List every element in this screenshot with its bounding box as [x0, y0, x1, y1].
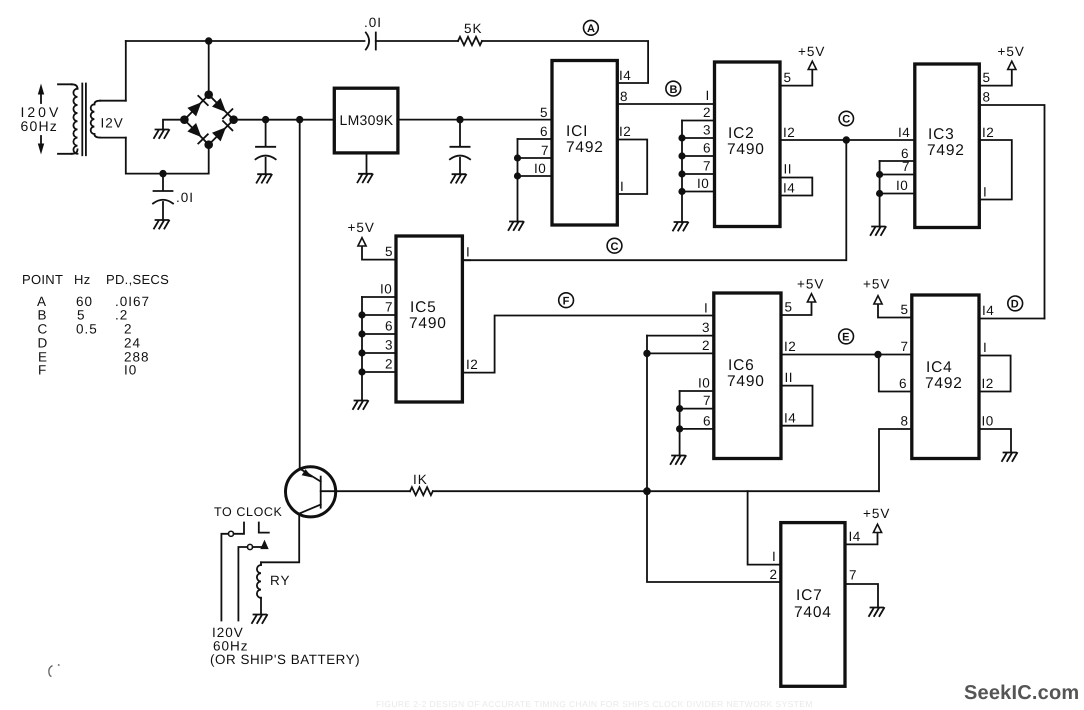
- IC3 7492 box: [915, 64, 980, 228]
- IC2 7490 box: [715, 62, 781, 227]
- wire: contact 1 down to 120V source: [221, 534, 228, 621]
- IC4 pin 10 wire to ground: [979, 429, 1011, 453]
- ground (IC6 bus): [671, 456, 686, 465]
- +5V supply (IC5): [358, 238, 366, 246]
- IC6 pin 11 to pin 14 loop: [781, 386, 813, 426]
- resistor 5K: [458, 21, 483, 45]
- IC6 7490 box: [714, 293, 781, 459]
- svg-text:3: 3: [385, 338, 393, 353]
- svg-text:5K: 5K: [464, 21, 483, 36]
- IC4 pin 5 wire to +5V: [878, 303, 912, 318]
- svg-text:I2: I2: [982, 125, 994, 140]
- IC7 pin 14 wire to +5V: [845, 531, 878, 544]
- wire: top rail (left of .01 cap): [126, 40, 365, 42]
- ground (IC3 bus): [871, 227, 886, 236]
- svg-text:5: 5: [901, 302, 909, 317]
- IC3 pin 7 wire: [880, 174, 915, 176]
- junction: output cap C3: [456, 116, 463, 123]
- svg-text:+5V: +5V: [863, 506, 890, 521]
- IC1 7492 box: [552, 61, 617, 226]
- IC4 7492 box: [912, 295, 979, 459]
- svg-text:I: I: [772, 549, 776, 564]
- ground (IC4 pin 10): [1002, 453, 1017, 462]
- ground (C3): [451, 174, 466, 183]
- svg-text:0.5: 0.5: [76, 322, 98, 337]
- IC4 pin 1 to pin 12 loop: [979, 356, 1011, 392]
- svg-text:24: 24: [124, 336, 141, 351]
- IC5 pin 7 wire: [362, 314, 396, 316]
- svg-text:(OR SHIP'S BATTERY): (OR SHIP'S BATTERY): [210, 652, 360, 667]
- svg-text:2: 2: [702, 338, 710, 353]
- wire: bridge top to rail: [208, 41, 210, 95]
- svg-text:Hz: Hz: [74, 272, 91, 287]
- svg-text:I0: I0: [982, 414, 994, 429]
- node A: [584, 20, 599, 35]
- svg-text:IK: IK: [413, 472, 428, 487]
- IC6 pin 2 wire: [647, 352, 714, 354]
- IC6 left bus to ground: [679, 391, 681, 456]
- junction: transistor collector feed: [296, 116, 303, 123]
- svg-text:I4: I4: [619, 68, 631, 83]
- IC6 pin 10 wire: [680, 390, 714, 392]
- svg-text:6: 6: [703, 141, 711, 156]
- transformer T1 primary winding: [58, 84, 78, 154]
- svg-text:B: B: [670, 84, 678, 96]
- wire: top rail (5K to IC1 pin 14), node A drop: [482, 41, 648, 83]
- IC5 pin 5 wire to +5V: [362, 245, 396, 260]
- svg-text:F: F: [38, 363, 47, 378]
- IC2 pin 7 wire: [682, 173, 715, 175]
- IC2 pin 6 wire: [682, 155, 715, 157]
- svg-text:6: 6: [899, 376, 907, 391]
- ground (C2): [257, 174, 272, 183]
- svg-text:7492: 7492: [927, 142, 965, 159]
- svg-text:5: 5: [983, 70, 991, 85]
- svg-text:IC4: IC4: [926, 359, 953, 376]
- svg-text:7: 7: [901, 339, 909, 354]
- svg-text:6: 6: [540, 124, 548, 139]
- junction: 1K line / IC6-IC7 vertical: [643, 487, 651, 495]
- wire: bridge right node to LM309K input: [234, 119, 334, 121]
- svg-text:I2: I2: [466, 357, 478, 372]
- wire: secondary top to top rail: [125, 41, 127, 101]
- voltage regulator U1 LM309K: [334, 88, 398, 153]
- wire: LM309K ground lead: [366, 153, 368, 174]
- IC1 pin 7 wire: [518, 157, 553, 159]
- diode D1 (left-top edge, points to top node): [187, 102, 201, 116]
- IC7 pin 7 wire to ground: [845, 584, 878, 608]
- clock contact 2 (open circle and armature arrow): [247, 540, 268, 550]
- IC1 left bus to ground: [517, 139, 519, 222]
- svg-text:7492: 7492: [925, 375, 963, 392]
- svg-text:PD.,SECS: PD.,SECS: [106, 272, 169, 287]
- svg-text:3: 3: [703, 123, 711, 138]
- svg-text:8: 8: [983, 90, 991, 105]
- svg-text:D: D: [1011, 299, 1019, 311]
- capacitor .01 (lower left): [153, 174, 194, 220]
- wire: top rail (cap to 5K): [376, 40, 458, 42]
- IC3 pin 10 wire: [880, 193, 915, 195]
- +5V supply (IC7): [873, 524, 881, 532]
- IC5 pin 3 wire: [362, 352, 396, 354]
- capacitor .01 on top rail: [364, 15, 382, 50]
- svg-text:I4: I4: [783, 181, 795, 196]
- svg-text:5: 5: [385, 244, 393, 259]
- Q1 collector lead out: [321, 490, 336, 492]
- label 120V 60Hz (OR SHIP'S BATTERY): [210, 625, 360, 667]
- IC5 pin 1 wire (to node C line): [462, 259, 470, 261]
- svg-text:7: 7: [385, 300, 393, 315]
- clock fixed contact L: [259, 523, 269, 533]
- IC6 pin 7 wire: [680, 408, 714, 410]
- IC2 pin 10 wire: [682, 191, 715, 193]
- IC6 pin 12 wire to IC4 pin 7 (node E): [781, 354, 912, 356]
- svg-text:5: 5: [785, 300, 793, 315]
- svg-text:6: 6: [703, 414, 711, 429]
- transformer T1 secondary winding 12V: [91, 101, 126, 138]
- ground (bridge left): [154, 130, 169, 139]
- bridge rectifier diamond: [180, 90, 238, 149]
- svg-text:LM309K: LM309K: [340, 112, 394, 128]
- node C (below IC1): [607, 238, 622, 253]
- svg-text:I: I: [466, 245, 470, 260]
- wire: contact 2 down to 120V source: [238, 547, 247, 621]
- svg-text:I: I: [706, 88, 710, 103]
- +5V supply (IC3): [1008, 61, 1016, 69]
- wire: secondary bottom to bridge bottom: [126, 138, 209, 174]
- node F: [559, 293, 574, 308]
- IC5 pin 2 wire: [362, 371, 396, 373]
- svg-text:7490: 7490: [409, 315, 447, 332]
- diode D2 (top-right edge, points to right node): [212, 98, 226, 112]
- svg-text:5: 5: [784, 70, 792, 85]
- svg-text:60Hz: 60Hz: [21, 118, 58, 134]
- timing table: [22, 272, 169, 378]
- wire: Q1 base lead to relay: [261, 514, 299, 563]
- capacitor C2 to ground: [256, 120, 276, 175]
- ground (LM309K): [358, 174, 373, 183]
- svg-text:I2: I2: [783, 125, 795, 140]
- IC1 pin 12 to pin 1 loop: [617, 140, 647, 195]
- IC2 left bus to ground: [681, 121, 683, 223]
- svg-text:I4: I4: [784, 411, 796, 426]
- junction: filter cap C2: [262, 116, 269, 123]
- svg-text:7: 7: [541, 143, 549, 158]
- resistor 1K: [410, 472, 433, 495]
- +5V supply (IC6): [807, 294, 815, 302]
- IC1 pin 8 wire to IC2 pin 1: [617, 103, 714, 105]
- relay coil RY: [257, 562, 291, 614]
- IC2 pin 2 wire: [682, 120, 715, 122]
- svg-text:ICI: ICI: [566, 123, 588, 140]
- junction: rail/bridge: [205, 37, 212, 44]
- node C (top): [839, 111, 853, 125]
- svg-text:SeekIC.com: SeekIC.com: [964, 682, 1079, 704]
- IC7 7404 box: [781, 523, 845, 687]
- wire: LM309K output to IC1 pin 5: [398, 119, 552, 121]
- IC2 pin 5 wire to +5V: [780, 68, 812, 86]
- label 120V 60Hz with double arrow: [21, 84, 124, 155]
- IC5 7490 box: [396, 236, 462, 402]
- svg-text:C: C: [38, 322, 49, 337]
- wire: node C down and left to IC5 pin 1: [462, 140, 846, 260]
- svg-text:7: 7: [849, 568, 857, 583]
- svg-text:+5V: +5V: [348, 220, 375, 235]
- svg-text:I0: I0: [697, 176, 709, 191]
- svg-text:I: I: [983, 340, 987, 355]
- wire: IC6 pins 3/2 down to IC7 pin 2: [647, 336, 781, 582]
- wire: 1K to corner at IC4 pin 8: [433, 490, 879, 492]
- capacitor C3 to ground: [450, 120, 470, 175]
- ground (relay): [252, 615, 267, 624]
- svg-text:8: 8: [620, 89, 628, 104]
- node B: [666, 81, 681, 96]
- node D: [1008, 296, 1023, 311]
- svg-text:B: B: [38, 308, 48, 323]
- svg-text:D: D: [38, 336, 49, 351]
- clock contact 1 (open circle and hook): [228, 523, 244, 537]
- svg-text:I4: I4: [982, 303, 994, 318]
- IC5 pin 12 wire to node F line: [462, 316, 713, 373]
- svg-text:.2: .2: [115, 308, 128, 323]
- IC2 pin 3 wire: [682, 137, 715, 139]
- transformer T1 core: [82, 84, 86, 156]
- svg-text:I0: I0: [698, 376, 710, 391]
- ground (IC5 bus): [353, 401, 368, 410]
- svg-text:+5V: +5V: [863, 277, 890, 292]
- svg-text:I2V: I2V: [101, 116, 124, 131]
- svg-text:7490: 7490: [727, 373, 765, 390]
- node E: [839, 329, 854, 344]
- svg-text:I2: I2: [784, 339, 796, 354]
- svg-text:7: 7: [902, 159, 910, 174]
- svg-text:C: C: [611, 241, 619, 253]
- wire: bridge left node to ground: [163, 120, 184, 130]
- Q1 emitter diagonal with arrow: [300, 469, 321, 482]
- svg-text:+5V: +5V: [797, 277, 824, 292]
- IC1 pin 10 wire: [518, 175, 553, 177]
- IC3 pin 5 wire to +5V: [979, 68, 1012, 86]
- svg-text:II: II: [785, 370, 794, 385]
- IC5 pin 6 wire: [362, 333, 396, 335]
- svg-text:5: 5: [77, 308, 86, 323]
- svg-text:I0: I0: [534, 161, 546, 176]
- svg-text:2: 2: [385, 357, 393, 372]
- svg-text:7490: 7490: [727, 141, 765, 158]
- IC3 pin 12 to pin 1 loop: [979, 140, 1012, 200]
- +5V supply (IC4): [874, 296, 882, 304]
- svg-text:RY: RY: [270, 573, 291, 588]
- svg-text:IC6: IC6: [728, 357, 755, 374]
- IC3 pin 8 wire to node D drop: [979, 105, 1044, 319]
- svg-text:2: 2: [124, 322, 133, 337]
- junction: node C drop: [843, 136, 850, 143]
- IC6 pin 3 wire: [647, 335, 714, 337]
- svg-text:I2: I2: [619, 124, 631, 139]
- svg-text:IC7: IC7: [796, 587, 823, 604]
- ground (IC1 bus): [509, 222, 524, 231]
- IC1 pin 6 wire: [518, 138, 553, 140]
- junction: IC6 pin 2: [643, 350, 650, 357]
- +5V supply (IC2): [808, 61, 816, 69]
- svg-text:.0I: .0I: [176, 190, 194, 205]
- svg-text:I: I: [983, 185, 987, 200]
- svg-text:+5V: +5V: [998, 44, 1025, 59]
- IC6 pin 5 wire to +5V: [781, 301, 812, 316]
- svg-text:I0: I0: [896, 178, 908, 193]
- svg-text:I: I: [620, 179, 624, 194]
- transistor Q1: [286, 467, 336, 517]
- svg-text:7: 7: [703, 393, 711, 408]
- svg-text:I0: I0: [380, 282, 392, 297]
- junction: IC4 pins 7/6: [874, 351, 881, 358]
- ground (IC7 pin 7): [869, 608, 884, 617]
- diode D4 (bottom-right edge, points to right node): [212, 127, 226, 141]
- wire: branch down to IC7 pin 1: [748, 491, 781, 564]
- stray mark left margin: [49, 665, 60, 677]
- svg-text:7: 7: [703, 159, 711, 174]
- svg-text:II: II: [784, 162, 793, 177]
- svg-text:A: A: [587, 23, 595, 35]
- svg-text:7404: 7404: [794, 604, 832, 621]
- diode D3 (left-bottom edge, points to bottom node): [187, 123, 201, 137]
- bridge node dots: [204, 90, 213, 99]
- Q1 base diagonal: [299, 505, 321, 514]
- IC4 pin 14 wire from node D drop: [979, 318, 1045, 320]
- svg-text:POINT: POINT: [22, 272, 63, 287]
- svg-text:IC2: IC2: [728, 125, 755, 142]
- svg-text:IC5: IC5: [410, 299, 437, 316]
- svg-text:6: 6: [385, 319, 393, 334]
- svg-text:I4: I4: [898, 125, 910, 140]
- ground (lower .01 cap): [154, 220, 169, 229]
- svg-text:I: I: [704, 301, 708, 316]
- IC2 pin 12 wire to node C: [780, 139, 915, 141]
- svg-text:I4: I4: [849, 529, 861, 544]
- junction: bottom wire / .01 cap: [159, 170, 166, 177]
- svg-text:5: 5: [540, 105, 548, 120]
- svg-text:3: 3: [702, 320, 710, 335]
- IC3 left bus to ground: [879, 161, 881, 227]
- IC3 pin 6 wire: [880, 160, 915, 162]
- IC4 pin 8 wire down to 1K line: [879, 429, 912, 491]
- IC5 pin 10 wire: [362, 296, 396, 298]
- svg-text:I0: I0: [124, 363, 137, 378]
- svg-text:FIGURE 2-2 DESIGN OF ACCURATE: FIGURE 2-2 DESIGN OF ACCURATE TIMING CHA…: [376, 699, 813, 709]
- svg-text:+5V: +5V: [798, 44, 825, 59]
- svg-text:.0I: .0I: [364, 15, 382, 30]
- svg-text:2: 2: [770, 567, 778, 582]
- svg-text:TO CLOCK: TO CLOCK: [214, 505, 283, 519]
- svg-text:IC3: IC3: [928, 126, 955, 143]
- ground (IC2 bus): [673, 222, 688, 231]
- svg-text:I2: I2: [982, 376, 994, 391]
- svg-text:7492: 7492: [566, 139, 604, 156]
- Q1 base bar: [320, 477, 322, 508]
- IC6 pin 6 wire: [680, 428, 714, 430]
- IC5 left bus to ground: [361, 297, 363, 401]
- svg-text:2: 2: [703, 105, 711, 120]
- svg-text:8: 8: [901, 414, 909, 429]
- IC4 pin 6 wire: [879, 355, 912, 392]
- svg-text:E: E: [842, 332, 849, 344]
- svg-text:C: C: [842, 114, 850, 126]
- wire: emitter to 1K to IC4 pin 8 drop: [335, 490, 410, 492]
- wire: power node down to transistor Q1: [299, 120, 301, 470]
- svg-text:F: F: [563, 295, 570, 307]
- IC2 pin 11 to pin 14 loop: [780, 178, 812, 196]
